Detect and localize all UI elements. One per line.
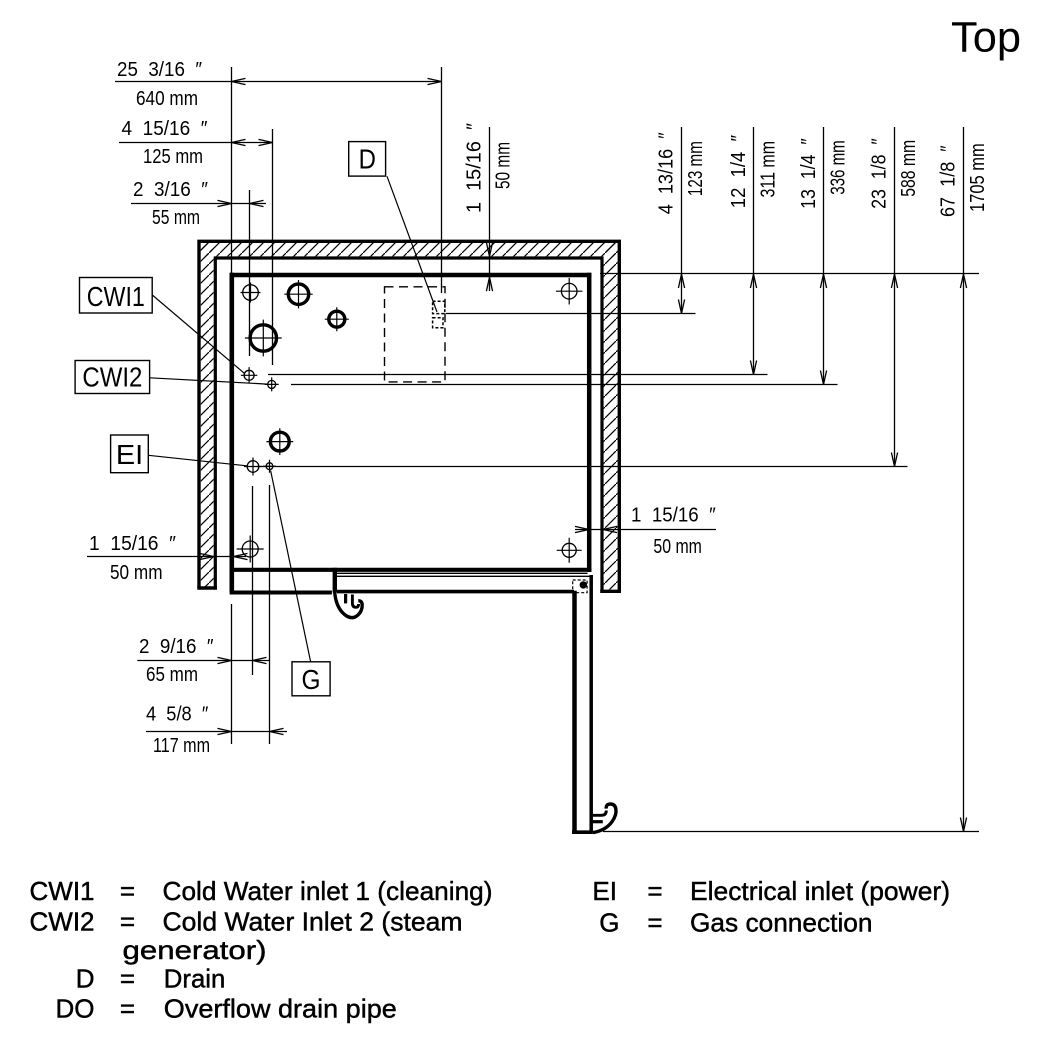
label box EI [111, 435, 149, 473]
dimension 50 mm top (wall gap) [489, 127, 491, 291]
svg-text:12 1/4 ″: 12 1/4 ″ [728, 135, 750, 208]
label box D [349, 142, 386, 177]
svg-text:=: = [647, 876, 662, 906]
wall hatch left band [201, 243, 214, 587]
label box CWI1 [80, 278, 153, 314]
svg-text:generator): generator) [123, 935, 267, 965]
thick hole A [288, 284, 308, 304]
dimension 336 mm [823, 127, 825, 385]
dimension 65 mm line [137, 660, 270, 662]
svg-text:EI: EI [116, 439, 143, 470]
svg-text:DO: DO [56, 994, 95, 1024]
appliance top edge [230, 273, 592, 277]
svg-text:Overflow drain pipe: Overflow drain pipe [164, 994, 397, 1024]
dimension 125 mm line [119, 142, 273, 144]
svg-text:336 mm: 336 mm [828, 140, 850, 195]
svg-text:Electrical inlet (power): Electrical inlet (power) [690, 876, 950, 906]
svg-text:2 9/16 ″: 2 9/16 ″ [139, 636, 214, 658]
svg-text:50 mm: 50 mm [653, 536, 702, 558]
svg-text:CWI2: CWI2 [30, 907, 95, 937]
svg-text:Gas connection: Gas connection [690, 908, 873, 938]
dimension 55 mm line [131, 203, 266, 205]
svg-text:2 3/16 ″: 2 3/16 ″ [133, 179, 208, 201]
svg-text:1705 mm: 1705 mm [967, 143, 989, 212]
svg-text:4 5/8 ″: 4 5/8 ″ [146, 704, 208, 726]
svg-text:67 1/8 ″: 67 1/8 ″ [938, 145, 960, 217]
svg-text:25 3/16 ″: 25 3/16 ″ [117, 59, 202, 81]
dimension 117 mm line [146, 731, 287, 733]
drain pipe right wall [589, 575, 593, 831]
hole bottom-left crosshair [242, 541, 258, 557]
svg-text:G: G [599, 908, 619, 938]
svg-text:CWI1: CWI1 [87, 281, 145, 312]
leader G [271, 471, 311, 662]
drain pipe bottom cap [572, 830, 593, 834]
dimension 311 mm [753, 127, 755, 375]
svg-text:D: D [359, 144, 376, 175]
dimension 1705 mm [963, 127, 965, 832]
leader CWI1 [152, 295, 244, 373]
svg-text:55 mm: 55 mm [152, 207, 200, 229]
extension line x=249.3 [249, 190, 251, 356]
G connection point [266, 463, 273, 470]
extension line x=441 (to drain) [441, 67, 443, 293]
drain D dashed square lower [433, 318, 443, 328]
wall right end cap [600, 590, 621, 593]
svg-text:1 15/16 ″: 1 15/16 ″ [631, 505, 716, 527]
thick hole CWI1 large [250, 325, 276, 351]
CWI1 connection point [244, 370, 254, 380]
svg-text:G: G [302, 664, 321, 695]
wall outer line [199, 241, 619, 591]
hole top-right crosshair [561, 283, 577, 299]
extension line x=273 [272, 129, 274, 365]
hole bottom-right crosshair [562, 543, 576, 557]
svg-text:125 mm: 125 mm [143, 146, 203, 168]
wall hatch right band [604, 243, 618, 590]
svg-text:CWI2: CWI2 [82, 362, 142, 393]
appliance left edge [230, 273, 235, 593]
svg-text:50 mm: 50 mm [110, 562, 163, 584]
appliance right edge [587, 273, 592, 572]
svg-text:23 1/8 ″: 23 1/8 ″ [869, 138, 891, 209]
thick hole B [329, 311, 345, 327]
svg-text:CWI1: CWI1 [30, 876, 95, 906]
svg-text:588 mm: 588 mm [898, 140, 920, 197]
extension line x=231.7 [231, 67, 233, 273]
svg-text:311 mm: 311 mm [758, 141, 780, 198]
svg-text:EI: EI [592, 876, 617, 906]
dimension 123 mm [681, 127, 683, 314]
svg-text:Drain: Drain [164, 964, 226, 994]
extension line x=252.6 (EI) [252, 486, 254, 675]
bottom-right dashed square with dot [573, 580, 587, 593]
lower section thick bottom [337, 590, 574, 594]
leader CWI2 [150, 378, 268, 384]
svg-text:50 mm: 50 mm [492, 142, 514, 189]
svg-text:=: = [120, 964, 135, 994]
leader EI [148, 455, 246, 466]
hole top-left crosshair [243, 285, 259, 301]
extension line x=269.6 (G) [269, 485, 271, 744]
drain pipe left wall [572, 591, 577, 832]
ground line [603, 831, 979, 833]
svg-text:13 1/4 ″: 13 1/4 ″ [798, 138, 820, 209]
wall hatch top band [201, 243, 618, 256]
wall left end cap [197, 586, 217, 589]
dimension 640 mm line [115, 81, 442, 83]
svg-text:Cold Water inlet 1 (cleaning): Cold Water inlet 1 (cleaning) [163, 876, 493, 906]
wall inner line [215, 258, 602, 591]
overflow drain pipe hook DO bottom [593, 804, 616, 833]
svg-text:=: = [120, 876, 135, 906]
extension line x=231.7 bottom [231, 604, 233, 744]
dimension 50 mm right line [575, 529, 716, 531]
svg-text:117 mm: 117 mm [153, 735, 210, 757]
top reference line [600, 273, 979, 275]
svg-text:Top: Top [951, 14, 1021, 62]
svg-text:4 13/16 ″: 4 13/16 ″ [656, 132, 678, 214]
appliance bottom edge [230, 568, 592, 572]
label box G [292, 662, 330, 696]
dimension 588 mm [894, 127, 896, 467]
svg-text:=: = [120, 994, 135, 1024]
dimension 50 mm left line [87, 556, 246, 558]
drain D dashed square upper [433, 301, 445, 313]
thick hole C [270, 432, 289, 451]
svg-text:4 15/16 ″: 4 15/16 ″ [122, 118, 208, 140]
lower section thin line A [337, 572, 588, 574]
svg-text:Cold Water Inlet 2 (steam: Cold Water Inlet 2 (steam [163, 907, 463, 937]
CWI2 connection point [268, 380, 276, 388]
EI connection point [247, 461, 259, 473]
leader D [387, 176, 437, 312]
svg-text:1 15/16 ″: 1 15/16 ″ [89, 533, 176, 555]
legend [30, 876, 951, 1024]
svg-text:65 mm: 65 mm [146, 664, 198, 686]
overflow drain pipe hook DO left [335, 591, 363, 618]
bottom channel step [333, 568, 337, 593]
svg-text:=: = [647, 908, 662, 938]
svg-text:=: = [120, 907, 135, 937]
svg-text:1 15/16 ″: 1 15/16 ″ [463, 123, 485, 213]
svg-text:123 mm: 123 mm [685, 141, 707, 196]
dashed rectangle (drain zone) [385, 287, 446, 382]
lower section thin line B [337, 575, 593, 577]
svg-text:640 mm: 640 mm [136, 88, 198, 110]
bottom channel bottom line [230, 591, 332, 595]
svg-text:D: D [76, 964, 95, 994]
label box CWI2 [75, 361, 150, 394]
